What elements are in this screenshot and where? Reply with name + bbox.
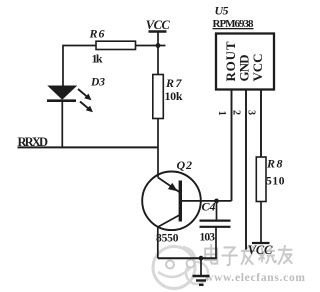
- svg-text:1: 1: [216, 111, 227, 116]
- svg-text:www.elecfans.com: www.elecfans.com: [205, 272, 305, 284]
- pin 3 wire VCC down to R8: [260, 90, 262, 158]
- capacitor C4 top plate: [200, 220, 231, 222]
- transistor Q2 base bar: [179, 181, 182, 222]
- svg-text:VCC: VCC: [250, 54, 265, 82]
- capacitor C4 bottom plate: [200, 226, 231, 228]
- ground symbol bar 1: [193, 275, 210, 277]
- wire R7 bottom through RRXD node to Q2 emitter: [157, 119, 159, 178]
- pin 2 wire GND down: [245, 90, 247, 250]
- svg-text:10k: 10k: [165, 89, 183, 103]
- ground rail: [158, 257, 217, 259]
- ground symbol bar 2: [196, 279, 206, 281]
- node junction dot ground stem: [199, 256, 204, 261]
- resistor R6 body: [96, 41, 136, 49]
- svg-text:Q2: Q2: [177, 158, 193, 172]
- svg-text:1k: 1k: [92, 52, 103, 66]
- watermark chinese text zi: [222, 247, 238, 265]
- capacitor C4 top lead: [216, 201, 218, 221]
- transistor Q2 collector diagonal: [158, 215, 180, 227]
- watermark chinese text fa: [241, 245, 255, 265]
- resistor R8 body: [256, 157, 266, 202]
- svg-text:3: 3: [246, 110, 257, 115]
- wire R8 bottom to VCC terminal: [260, 202, 262, 243]
- capacitor C4 bottom lead: [215, 227, 217, 258]
- power terminal VCC top: bar: [149, 30, 167, 32]
- svg-text:C4: C4: [202, 200, 216, 214]
- svg-text:8550: 8550: [156, 232, 179, 244]
- svg-text:R6: R6: [89, 27, 105, 41]
- svg-text:510: 510: [266, 176, 285, 188]
- power terminal VCC bottom: bar: [252, 242, 270, 244]
- watermark logo elecfans: [153, 247, 208, 289]
- svg-text:VCC: VCC: [146, 18, 171, 32]
- wire top rail left of R6: [63, 46, 96, 87]
- ground symbol stem: [200, 258, 202, 275]
- wire VCC node down to R7: [157, 46, 159, 75]
- wire VCC stub down: [157, 32, 159, 46]
- transistor Q2 circle: [142, 172, 201, 231]
- wire R6 right to VCC node stub: [136, 45, 166, 47]
- svg-text:VCC: VCC: [248, 243, 273, 257]
- net label RRXD underline + wire to vertical: [18, 146, 159, 148]
- svg-text:D3: D3: [90, 76, 105, 88]
- IC U5 box: [216, 34, 274, 90]
- svg-text:R8: R8: [266, 157, 283, 171]
- svg-text:2: 2: [231, 110, 242, 115]
- watermark chinese text you: [278, 245, 292, 265]
- svg-text:103: 103: [200, 231, 216, 243]
- LED D3 cathode bar: [47, 99, 76, 102]
- svg-text:R7: R7: [165, 76, 183, 90]
- watermark chinese text dian: [205, 244, 292, 265]
- ground symbol bar 3: [199, 284, 204, 286]
- node junction dot VCC/R6/R7: [156, 43, 161, 48]
- LED D3 anode wire done above; diode triangle: [49, 86, 77, 99]
- wire LED cathode down to RRXD rail: [61, 102, 63, 147]
- wire Q2 base lead to pin1: [181, 200, 232, 202]
- pin 1 wire ROUT down to base node: [231, 90, 233, 201]
- node junction dot base/C4: [214, 199, 219, 204]
- watermark chinese text shao: [259, 246, 276, 263]
- LED arrow 1: [78, 89, 92, 100]
- wire Q2 collector down to ground rail: [157, 227, 159, 259]
- svg-text:U5: U5: [215, 4, 229, 18]
- resistor R7 body: [153, 75, 164, 119]
- transistor Q2 emitter diagonal with arrow: [158, 178, 180, 193]
- svg-text:RRXD: RRXD: [18, 135, 49, 149]
- LED arrow 2: [80, 102, 93, 113]
